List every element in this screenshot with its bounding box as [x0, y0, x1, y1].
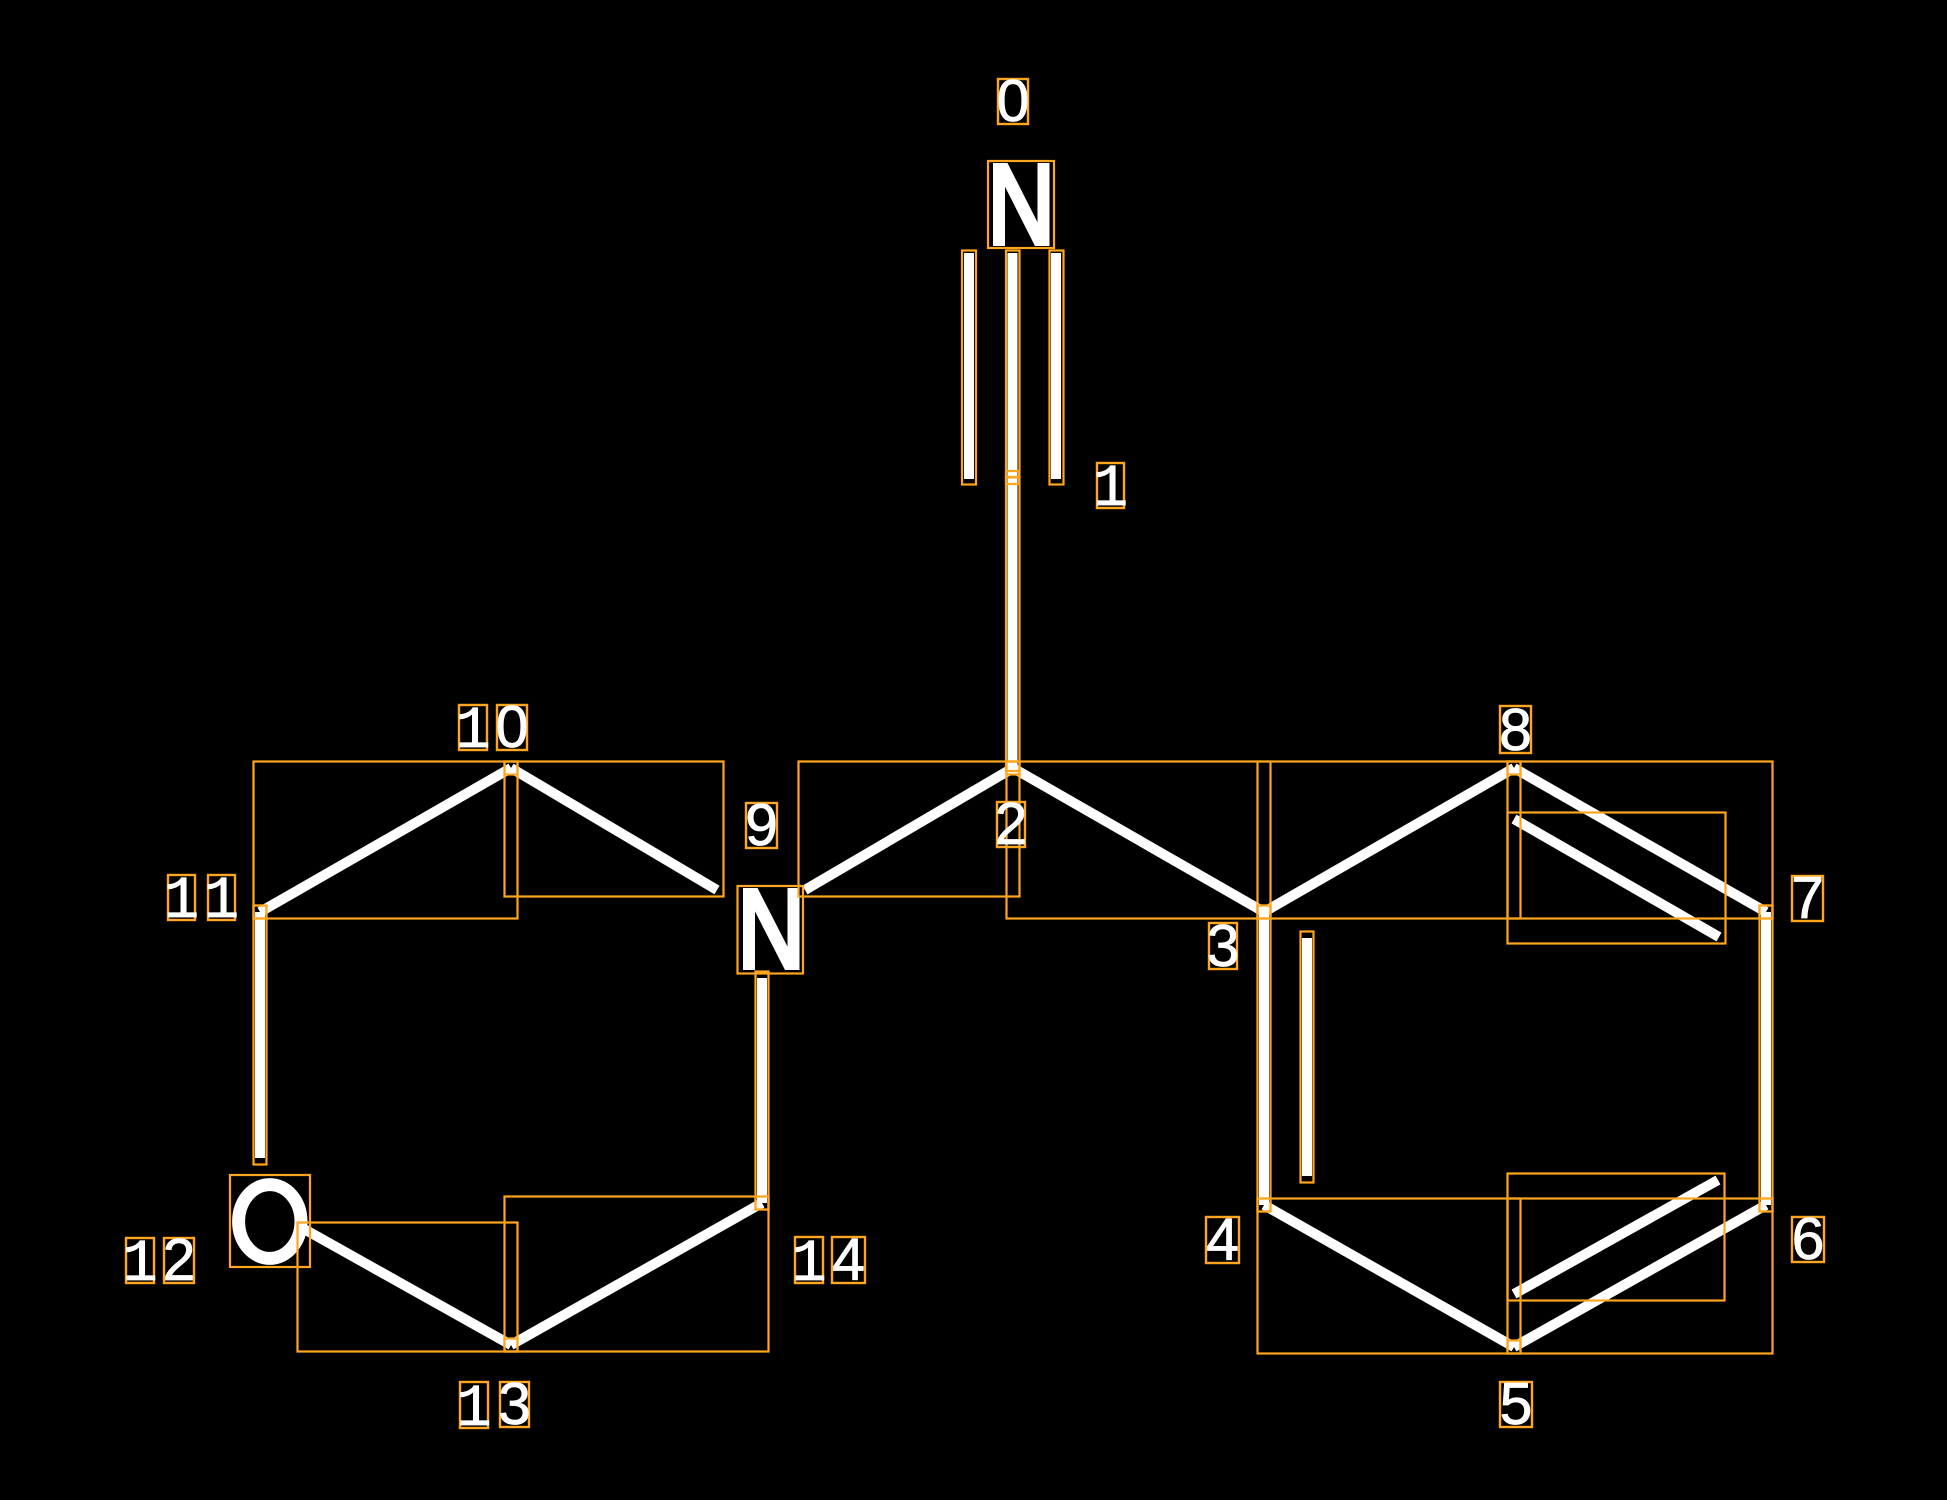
svg-text:0: 0	[496, 694, 529, 760]
svg-text:2: 2	[163, 1227, 196, 1293]
svg-text:0: 0	[997, 68, 1030, 134]
svg-text:3: 3	[498, 1371, 531, 1437]
svg-text:1: 1	[204, 868, 239, 935]
svg-text:1: 1	[791, 1231, 826, 1298]
svg-text:8: 8	[1499, 697, 1532, 763]
svg-text:7: 7	[1791, 865, 1824, 931]
svg-text:4: 4	[832, 1227, 865, 1293]
svg-text:2: 2	[995, 791, 1028, 857]
svg-text:1: 1	[456, 1376, 491, 1443]
svg-text:6: 6	[1792, 1206, 1825, 1272]
svg-text:5: 5	[1500, 1371, 1533, 1437]
svg-text:1: 1	[164, 868, 199, 935]
svg-text:1: 1	[1093, 456, 1128, 523]
svg-text:1: 1	[122, 1231, 157, 1298]
svg-text:4: 4	[1206, 1207, 1239, 1273]
svg-text:3: 3	[1207, 913, 1240, 979]
svg-text:1: 1	[455, 698, 490, 765]
svg-text:9: 9	[745, 792, 778, 858]
